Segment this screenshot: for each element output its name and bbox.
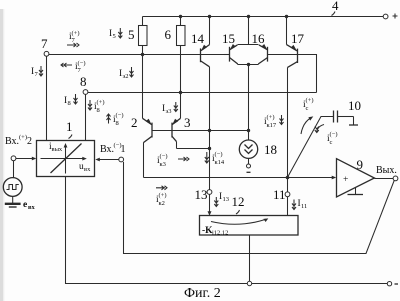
current source 18 — [239, 140, 257, 172]
label 17 — [291, 31, 305, 46]
wire correction branch diagonal — [288, 117, 334, 178]
resistor 6 — [177, 17, 186, 93]
transistor 17 — [287, 17, 298, 193]
label 1 — [66, 119, 73, 139]
current label I11 — [292, 199, 307, 210]
label 2 — [131, 115, 138, 130]
label 18 — [264, 142, 277, 157]
svg-text:к2: к2 — [159, 200, 165, 207]
svg-text:11: 11 — [273, 187, 286, 202]
svg-text:i12.12: i12.12 — [212, 230, 228, 237]
svg-text:7: 7 — [41, 36, 48, 51]
wire base17 to node8 rail — [268, 55, 317, 93]
svg-text:(+): (+) — [267, 114, 275, 121]
svg-text:5: 5 — [113, 33, 116, 40]
svg-text:вх: вх — [84, 166, 91, 173]
svg-text:(+): (+) — [97, 99, 105, 106]
current label ic(+) with curved arrow — [301, 97, 314, 134]
label 15 — [222, 31, 235, 46]
node 7 — [41, 36, 49, 56]
svg-text:2: 2 — [27, 136, 32, 147]
svg-text:Вых.: Вых. — [376, 165, 397, 176]
svg-text:18: 18 — [264, 142, 277, 157]
svg-text:10: 10 — [348, 98, 361, 113]
wire block1 to common bottom rail — [66, 177, 388, 284]
junction dot rail4/transistor17 — [285, 15, 288, 18]
svg-text:6: 6 — [165, 27, 172, 42]
svg-text:к17: к17 — [267, 122, 277, 129]
svg-text:13: 13 — [223, 196, 230, 203]
input terminal Vx(-)1 — [95, 142, 125, 162]
junction dot node7/resistor5 — [141, 53, 144, 56]
current label ik2(+) — [156, 186, 167, 207]
wire block12 to bottom rail — [249, 235, 251, 281]
label 14 — [191, 31, 205, 46]
junction dot rail4/1516 — [247, 15, 250, 18]
svg-text:э2: э2 — [123, 73, 129, 80]
svg-text:е: е — [23, 200, 27, 210]
terminal + (top right) — [383, 14, 397, 19]
junction dot base line / source18 — [247, 129, 250, 132]
wire node13 into block12 — [208, 194, 212, 215]
label 12 — [232, 194, 245, 214]
label e_vx — [23, 200, 36, 211]
op-amp 9 — [337, 159, 394, 197]
svg-text:17: 17 — [291, 31, 305, 46]
bottom node circle — [247, 281, 251, 285]
svg-text:11: 11 — [301, 203, 307, 210]
signal source e_vx — [3, 178, 22, 207]
feedback wire from output to Vx(-)1 — [124, 162, 395, 254]
svg-text:(+): (+) — [72, 30, 80, 37]
label u_vh inside block1 — [79, 162, 91, 173]
junction dot rail4/resistor6 — [179, 15, 182, 18]
junction dot base line / node13 line — [208, 129, 211, 132]
svg-text:(+): (+) — [159, 192, 167, 199]
svg-text:1: 1 — [66, 119, 73, 134]
svg-text:13: 13 — [195, 187, 208, 202]
svg-text:8: 8 — [97, 107, 100, 114]
node 11 — [273, 187, 290, 202]
node 13 — [195, 187, 212, 202]
current label ik17(+) — [264, 114, 284, 129]
svg-text:8: 8 — [80, 74, 87, 89]
svg-text:Вх.: Вх. — [100, 144, 114, 155]
svg-text:(+): (+) — [19, 134, 27, 141]
node 8 — [80, 74, 88, 94]
transistor 3 — [172, 93, 210, 149]
svg-text:+: + — [343, 175, 348, 185]
svg-text:к14: к14 — [215, 159, 225, 166]
scan left edge shading — [0, 9, 4, 301]
svg-text:1: 1 — [121, 144, 126, 155]
terminal - (bottom right) — [387, 282, 398, 286]
wire node11 into block12 — [287, 197, 289, 216]
svg-text:15: 15 — [222, 31, 235, 46]
current label I5 — [109, 28, 122, 40]
svg-text:вых: вых — [52, 146, 63, 153]
svg-text:Вх.: Вх. — [5, 136, 19, 147]
wire node7 base rail — [49, 54, 230, 56]
svg-text:(−): (−) — [215, 151, 223, 158]
svg-text:вх: вх — [28, 204, 36, 211]
junction dot node8/resistor6 — [179, 91, 182, 94]
wire base15 stub — [224, 54, 230, 56]
block 1 nonlinear converter — [37, 141, 95, 177]
junction dot rail4/transistor14 — [208, 15, 211, 18]
svg-text:(−): (−) — [78, 60, 86, 67]
wire node8 rail — [88, 92, 317, 94]
current label I8 — [64, 94, 78, 107]
svg-text:э3: э3 — [166, 108, 172, 115]
junction dot octagon bottom — [247, 63, 250, 66]
svg-text:14: 14 — [191, 31, 205, 46]
resistor 5 — [139, 17, 148, 55]
label 3 — [184, 115, 191, 130]
svg-text:3: 3 — [184, 115, 191, 130]
svg-text:с: с — [330, 139, 333, 146]
node 4 label — [332, 0, 340, 16]
svg-text:с: с — [306, 105, 309, 112]
current label i8(+) — [88, 99, 105, 114]
current label I7 — [31, 66, 43, 78]
svg-text:(−): (−) — [330, 131, 338, 138]
input terminal Vx(+)2 — [5, 134, 36, 178]
svg-text:к3: к3 — [160, 161, 166, 168]
label 5 — [128, 27, 135, 42]
current label i7(-) — [61, 60, 86, 74]
label 10 — [348, 98, 361, 113]
current label i7(+) — [67, 30, 80, 47]
svg-text:16: 16 — [252, 31, 266, 46]
wire node7 down to block1 — [46, 56, 48, 140]
wire collector2 rail to opamp — [144, 176, 337, 180]
label 16 — [252, 31, 266, 46]
wire top positive rail — [143, 16, 384, 18]
svg-text:7: 7 — [35, 71, 39, 78]
current label ik14(-) — [205, 151, 225, 166]
transistor 2 — [143, 55, 153, 178]
current label I13 — [214, 192, 229, 207]
svg-text:9: 9 — [357, 157, 364, 172]
svg-text:(+): (+) — [306, 97, 314, 104]
transistor pair 15/16 octagon — [229, 17, 267, 141]
wire node8 down to block1 — [85, 94, 87, 140]
capacitor 10 — [334, 111, 359, 126]
current label Ie3 — [162, 102, 178, 115]
svg-text:12: 12 — [232, 194, 245, 209]
svg-text:8: 8 — [68, 100, 71, 107]
current label Ie2 — [119, 67, 134, 80]
svg-text:4: 4 — [332, 0, 339, 13]
label 6 — [165, 27, 172, 42]
svg-text:7: 7 — [78, 67, 82, 74]
svg-text:(−): (−) — [160, 153, 168, 160]
transistor 14 — [201, 17, 210, 190]
block 12 feedback amplifier — [200, 216, 299, 237]
svg-text:7: 7 — [72, 37, 76, 44]
junction dot rail/collector17 — [286, 176, 290, 180]
current label ik3(-) — [157, 153, 189, 168]
output terminal Vyx — [376, 165, 398, 181]
figure caption — [184, 286, 221, 301]
wire base 2-3 to current source — [152, 130, 249, 132]
label 9 — [357, 157, 364, 172]
svg-text:5: 5 — [128, 27, 135, 42]
svg-text:Фиг. 2: Фиг. 2 — [184, 286, 221, 301]
svg-text:2: 2 — [131, 115, 138, 130]
junction dot collector3 / node13 line — [208, 147, 211, 150]
current label ic(-) with curved arrow — [315, 125, 338, 147]
svg-text:8: 8 — [116, 120, 119, 127]
label i_vyh inside block1 — [49, 142, 63, 153]
current label i8(-) — [107, 112, 124, 127]
svg-text:(−): (−) — [116, 112, 124, 119]
